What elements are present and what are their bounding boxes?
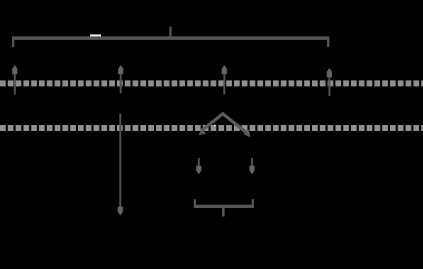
- bottom bracket left hook: [194, 199, 196, 206]
- top bracket right hook: [327, 38, 329, 47]
- up arrow 1: [12, 65, 17, 95]
- dashed line 2: [0, 125, 423, 131]
- top bracket bar: [12, 36, 329, 40]
- up arrow 4: [327, 68, 332, 96]
- bottom bracket right hook: [252, 199, 254, 206]
- short down arrow right: [249, 158, 254, 174]
- white speck 2: [214, 125, 215, 126]
- chevron with two arrowheads: [199, 114, 251, 137]
- long down arrow: [118, 114, 123, 216]
- short down arrow left: [196, 158, 201, 174]
- up arrow 3: [222, 65, 227, 95]
- top bracket left hook: [12, 38, 14, 47]
- white speck 1: [208, 124, 209, 125]
- top bracket center tick: [169, 27, 171, 39]
- white dash on bracket: [90, 34, 101, 36]
- dashed line 1: [0, 80, 423, 86]
- bottom bracket bar: [194, 205, 254, 208]
- up arrow 2: [118, 65, 123, 94]
- bottom bracket center tick: [222, 207, 225, 217]
